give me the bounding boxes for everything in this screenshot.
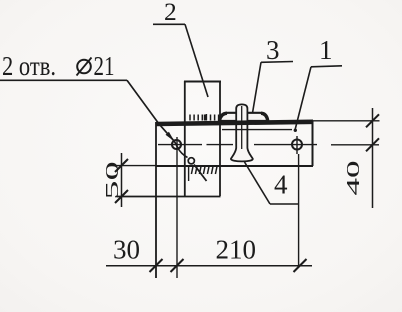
plate 2 right edge xyxy=(219,81,221,196)
bar 1 bottom edge xyxy=(156,165,313,167)
svg-text:21: 21 xyxy=(94,51,115,81)
label 4 leader xyxy=(245,162,271,204)
washer 3 body xyxy=(219,113,268,121)
callout diameter symbol xyxy=(77,58,92,76)
tick at x177 xyxy=(171,259,184,272)
label 4 underline xyxy=(270,203,299,205)
weld serration top blob xyxy=(204,115,207,121)
weld-all-around leader curve xyxy=(178,148,188,158)
svg-text:2: 2 xyxy=(164,0,177,26)
svg-text:30: 30 xyxy=(113,234,140,264)
tick 40 bottom xyxy=(366,138,379,151)
label 2 leader xyxy=(185,24,208,97)
dimension 40 top extension xyxy=(313,120,380,122)
hole H1 vertical centerline + extension line xyxy=(176,137,178,278)
tick 50 top xyxy=(115,159,128,172)
label 3 underline xyxy=(261,61,293,64)
label 1 underline xyxy=(311,66,342,67)
label 1 leader end dot xyxy=(294,129,297,132)
svg-text:1: 1 xyxy=(319,35,333,65)
dimension 50 top extension xyxy=(115,165,156,167)
weld edge line below bar xyxy=(188,166,190,181)
bar 1 right edge xyxy=(312,121,314,166)
weld serration top row xyxy=(190,114,219,121)
tick 50 bottom xyxy=(115,190,128,203)
weld-all-around circle xyxy=(188,158,194,164)
callout leader through hole xyxy=(175,142,178,148)
tick at x300 xyxy=(294,259,307,272)
bottom dimension line xyxy=(106,265,312,267)
label 3 leader xyxy=(253,62,262,113)
bar 1 top edge (thick) xyxy=(156,122,313,124)
plate 2 top edge xyxy=(184,81,221,83)
hole H2 (right, d21) xyxy=(292,140,302,150)
bar 1 top edge second line xyxy=(222,129,292,131)
plate 2 (vertical plate) left edge xyxy=(184,81,186,196)
pin 4 body xyxy=(231,104,253,161)
washer 3 right end blob xyxy=(261,113,268,120)
tick 40 top xyxy=(366,114,379,127)
svg-text:4: 4 xyxy=(274,170,288,200)
hole H2 vertical centerline + extension line xyxy=(297,136,299,268)
dimension 50 line xyxy=(121,153,123,207)
washer 3 left end blob xyxy=(220,113,228,120)
bar 1 / gusset left edge with extension to dimension line xyxy=(155,122,157,278)
callout leader to hole H1 xyxy=(127,80,175,141)
hole H1 (left, d21) xyxy=(172,140,181,149)
label 2 underline xyxy=(153,23,185,25)
weld serration bottom row xyxy=(191,167,217,175)
pin 4 inner line xyxy=(241,106,243,149)
dimension 40 line xyxy=(372,108,374,208)
svg-text:3: 3 xyxy=(266,35,280,65)
svg-text:50: 50 xyxy=(102,161,123,199)
callout leader arrowhead xyxy=(166,132,175,142)
svg-text:210: 210 xyxy=(216,234,257,264)
weld leader diagonal stroke xyxy=(194,165,207,182)
callout "2 otv d21" underline xyxy=(0,79,127,81)
label 1 leader xyxy=(295,67,311,130)
tick at x156 xyxy=(150,259,163,272)
plates bottom edge with extension to 50-dimension xyxy=(117,196,221,198)
svg-text:2 отв.: 2 отв. xyxy=(2,51,56,81)
centerline through holes (axis) xyxy=(158,144,233,146)
svg-text:40: 40 xyxy=(343,160,363,195)
